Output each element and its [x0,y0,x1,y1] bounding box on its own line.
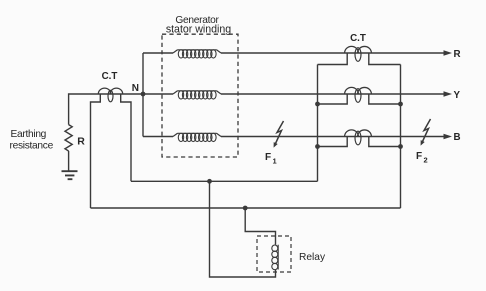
relay coil [277,245,279,270]
wire: neutral CT secondary right lead [121,94,131,181]
svg-text:R: R [454,49,461,60]
wire: CT bank left secondary bus [317,65,319,182]
ground [62,171,78,179]
svg-text:B: B [454,132,461,143]
wire: CT bank right secondary bus [400,65,402,209]
wire: neutral CT secondary left lead [91,94,101,208]
CT B phase line [345,130,359,137]
svg-text:1: 1 [273,157,277,166]
svg-text:F: F [265,152,271,163]
svg-text:F: F [416,151,422,162]
junction Y CT right lead [398,102,403,107]
winding coil R phase [173,50,221,53]
junction relay top on pilot lower [243,206,248,211]
svg-text:C.T: C.T [102,71,118,82]
wire: B phase CT secondary leads [318,137,401,147]
wire: relay top lead [245,208,275,245]
svg-text:Earthing: Earthing [11,129,47,140]
svg-text:Relay: Relay [299,252,326,263]
junction relay bottom on pilot upper [207,179,212,184]
relay enclosure (dashed) [257,236,291,272]
junction B CT left lead [315,144,320,149]
wire: Y phase CT secondary leads [318,94,401,104]
svg-text:Y: Y [454,90,461,101]
svg-text:N: N [132,83,139,94]
generator stator winding enclosure (dashed) [162,34,238,157]
svg-text:2: 2 [424,156,428,165]
svg-text:stator winding: stator winding [166,24,231,36]
fault F2 (external fault arrow) [423,119,431,142]
resistor R (earthing resistance) [65,125,72,151]
wire: R phase line [143,52,444,54]
winding coil Y phase [173,91,221,94]
wire: pilot wire lower (CT secondary loop) [91,207,401,209]
svg-text:resistance: resistance [10,141,54,152]
CT Y phase line [345,87,359,94]
CT R phase line [345,46,359,53]
wire: stator neutral bus [142,53,144,137]
wire: earthing resistor to node N (neutral lead) [69,94,143,125]
wire: B phase line [143,136,444,138]
wire: R phase CT secondary leads [318,53,401,65]
svg-text:R: R [77,135,85,147]
wire: relay bottom lead [210,181,276,277]
junction B CT right lead [398,144,403,149]
fault F1 (internal fault arrow) [276,121,284,144]
CT neutral current transformer [98,88,111,94]
junction Y CT left lead [315,102,320,107]
wire: Y phase line [143,93,444,95]
node N [141,92,146,97]
wire: resistor to ground [68,151,71,171]
svg-text:C.T: C.T [350,33,366,44]
winding coil B phase [173,133,221,136]
wire: pilot wire upper (CT secondary loop) [131,180,318,182]
